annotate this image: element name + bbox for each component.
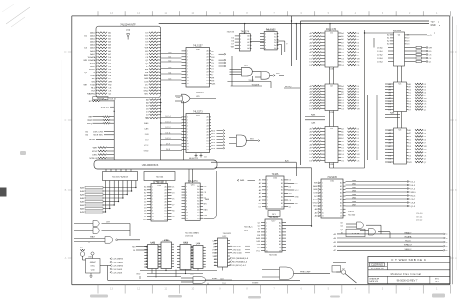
svg-text:9: 9 xyxy=(152,210,153,212)
svg-text:D6: D6 xyxy=(341,65,344,67)
svg-text:RAS: RAS xyxy=(313,185,318,188)
svg-text:8: 8 xyxy=(187,137,188,139)
svg-text:1: 1 xyxy=(266,222,267,224)
svg-text:WE: WE xyxy=(84,84,88,86)
svg-text:DM6: DM6 xyxy=(352,201,356,203)
svg-text:5: 5 xyxy=(322,196,323,198)
svg-text:A5: A5 xyxy=(144,186,146,189)
connector U35 right pin rows xyxy=(143,32,160,96)
svg-text:DO: DO xyxy=(213,247,216,249)
svg-text:11: 11 xyxy=(152,216,154,218)
svg-text:RD (RDATA) 4-6: RD (RDATA) 4-6 xyxy=(232,261,248,264)
svg-text:DATE 5/16: DATE 5/16 xyxy=(369,280,378,283)
labels left of U10 xyxy=(313,182,321,218)
svg-text:3: 3 xyxy=(186,192,187,194)
svg-text:D2: D2 xyxy=(144,201,147,203)
svg-text:5: 5 xyxy=(266,235,267,237)
label below U17 xyxy=(269,255,278,257)
wires RD group to edge xyxy=(333,231,447,252)
svg-text:7416: 7416 xyxy=(150,242,156,244)
AND gate U28 xyxy=(255,72,284,80)
svg-text:A1: A1 xyxy=(387,37,389,40)
svg-text:Q1: Q1 xyxy=(424,159,427,161)
svg-text:D2: D2 xyxy=(357,135,360,137)
svg-text:9: 9 xyxy=(266,247,267,249)
svg-text:A2D: A2D xyxy=(285,159,290,162)
svg-text:U29: U29 xyxy=(196,96,200,98)
svg-text:Q1: Q1 xyxy=(424,109,427,111)
svg-text:CS 4-0: CS 4-0 xyxy=(416,213,423,215)
svg-text:4: 4 xyxy=(240,45,241,47)
wire U25 to bus xyxy=(244,23,245,34)
svg-text:A7: A7 xyxy=(207,70,209,73)
svg-text:CK: CK xyxy=(145,57,149,59)
svg-text:DRAWN AP: DRAWN AP xyxy=(369,278,380,281)
svg-text:6: 6 xyxy=(186,201,187,203)
svg-text:A5B: A5B xyxy=(80,204,85,207)
wires RAS CAS right xyxy=(385,112,400,118)
labels around U33 xyxy=(143,186,175,221)
svg-text:READY: READY xyxy=(404,231,412,234)
svg-text:4: 4 xyxy=(152,196,153,198)
svg-text:2: 2 xyxy=(152,190,153,192)
svg-text:A6: A6 xyxy=(409,129,411,132)
svg-text:D1: D1 xyxy=(340,212,342,214)
svg-text:D4 10: D4 10 xyxy=(165,138,171,140)
svg-text:D7: D7 xyxy=(357,106,360,108)
svg-text:2: 2 xyxy=(265,36,266,38)
svg-text:RD: RD xyxy=(429,51,432,53)
title block text xyxy=(369,258,439,283)
svg-text:A1: A1 xyxy=(197,188,199,191)
svg-text:WD: WD xyxy=(276,73,280,75)
wires entering bottom ICs xyxy=(132,246,147,252)
svg-text:74LS374: 74LS374 xyxy=(188,180,198,183)
svg-text:9: 9 xyxy=(186,209,187,211)
AND gate bottom xyxy=(181,277,232,284)
svg-text:A6B: A6B xyxy=(80,207,85,210)
svg-text:D0 14: D0 14 xyxy=(165,116,171,118)
svg-text:3: 3 xyxy=(187,57,188,59)
svg-text:74LS153: 74LS153 xyxy=(154,181,164,184)
svg-text:D6: D6 xyxy=(357,103,360,105)
svg-text:D5: D5 xyxy=(409,104,412,106)
svg-text:5: 5 xyxy=(265,45,266,47)
svg-text:OSC: OSC xyxy=(88,256,93,258)
svg-text:Q2: Q2 xyxy=(424,162,427,164)
svg-text:A2: A2 xyxy=(207,122,209,125)
connector U35 outline xyxy=(96,23,161,97)
svg-text:SYSTEMS INC: SYSTEMS INC xyxy=(371,268,385,270)
svg-text:8: 8 xyxy=(187,71,188,73)
svg-text:D0: D0 xyxy=(206,140,208,142)
svg-text:GND: GND xyxy=(313,202,318,204)
svg-text:D7: D7 xyxy=(357,151,360,153)
svg-text:MK4116: MK4116 xyxy=(393,30,402,32)
svg-text:WR: WR xyxy=(357,58,361,60)
buffer gates lower left xyxy=(74,221,130,237)
label U42 xyxy=(162,240,170,242)
labels above U15 xyxy=(186,157,200,161)
arrow label RAS mid xyxy=(237,179,255,182)
svg-text:4: 4 xyxy=(265,42,266,44)
svg-text:A5: A5 xyxy=(340,198,342,201)
wire bus column vertical xyxy=(183,101,184,160)
svg-text:B: B xyxy=(65,188,67,192)
svg-text:D6: D6 xyxy=(424,92,427,94)
svg-text:D5: D5 xyxy=(144,210,147,212)
svg-text:WFAULT: WFAULT xyxy=(404,244,413,247)
svg-text:WR: WR xyxy=(357,154,361,156)
svg-text:A2: A2 xyxy=(197,191,199,194)
svg-text:2: 2 xyxy=(266,226,267,228)
svg-text:D0: D0 xyxy=(197,209,199,211)
labels left of U17 xyxy=(256,222,312,252)
svg-text:RAS: RAS xyxy=(240,179,245,182)
svg-text:A4: A4 xyxy=(165,198,167,201)
wires disk group xyxy=(85,131,114,136)
svg-text:DIN: DIN xyxy=(257,244,261,246)
svg-text:TR00: TR00 xyxy=(90,75,96,77)
svg-text:D6: D6 xyxy=(357,52,360,54)
svg-text:VCC: VCC xyxy=(144,87,149,89)
svg-text:WR: WR xyxy=(108,81,112,83)
svg-text:A4: A4 xyxy=(281,192,283,195)
IC U22 xyxy=(215,238,231,267)
svg-text:D0: D0 xyxy=(206,74,208,76)
svg-text:D3: D3 xyxy=(341,55,344,57)
svg-text:A6: A6 xyxy=(207,133,209,136)
svg-text:VCC: VCC xyxy=(212,250,217,252)
svg-text:A1: A1 xyxy=(340,185,342,188)
svg-text:3: 3 xyxy=(240,42,241,44)
svg-text:A2: A2 xyxy=(214,264,216,267)
IC U16 74166 xyxy=(262,173,288,209)
IC U44 xyxy=(191,243,206,269)
svg-text:7414: 7414 xyxy=(183,242,189,244)
svg-text:MO: MO xyxy=(132,246,136,248)
svg-text:D2: D2 xyxy=(409,95,412,97)
svg-text:DRQ: DRQ xyxy=(87,123,92,125)
svg-text:D7: D7 xyxy=(409,159,412,161)
svg-text:DM1: DM1 xyxy=(352,184,356,186)
svg-text:D: D xyxy=(65,50,67,54)
svg-text:A1: A1 xyxy=(247,38,249,41)
wires DM bus to edge xyxy=(346,180,417,216)
svg-text:5: 5 xyxy=(152,199,153,201)
svg-text:MR: MR xyxy=(257,232,261,234)
svg-text:12: 12 xyxy=(186,218,188,220)
svg-text:D6: D6 xyxy=(409,107,412,109)
svg-text:D5: D5 xyxy=(409,152,412,154)
svg-text:D1: D1 xyxy=(341,144,344,146)
svg-text:7: 7 xyxy=(152,204,153,206)
svg-text:9: 9 xyxy=(187,74,188,76)
junction dot left bus xyxy=(114,111,115,112)
svg-text:D7: D7 xyxy=(232,44,235,46)
svg-text:2: 2 xyxy=(267,183,268,185)
svg-text:D7: D7 xyxy=(409,109,412,111)
svg-text:DAL7: DAL7 xyxy=(90,53,96,56)
svg-text:GND: GND xyxy=(144,150,149,152)
wire bus +5V top xyxy=(301,21,441,23)
svg-text:D1: D1 xyxy=(164,213,166,215)
svg-text:D6: D6 xyxy=(289,186,292,188)
svg-text:A7: A7 xyxy=(409,86,411,89)
wires U30 outputs xyxy=(211,51,226,86)
svg-text:D2: D2 xyxy=(164,216,166,218)
svg-text:D3: D3 xyxy=(357,94,360,96)
svg-text:A7: A7 xyxy=(197,205,199,208)
svg-text:ENBL: ENBL xyxy=(212,278,218,280)
label below connector xyxy=(93,97,116,101)
labels U25 left xyxy=(231,37,235,48)
svg-text:D1: D1 xyxy=(279,250,281,252)
IC U25 74LS74 xyxy=(235,31,252,51)
svg-text:A0: A0 xyxy=(274,33,276,36)
svg-text:A3: A3 xyxy=(387,43,389,46)
svg-text:96-5000-00 REV 7: 96-5000-00 REV 7 xyxy=(397,279,418,282)
svg-text:A3: A3 xyxy=(281,189,283,192)
svg-text:DM2: DM2 xyxy=(352,187,356,189)
labels right edge lower xyxy=(416,213,423,222)
wires into U31 xyxy=(144,117,182,152)
svg-text:CLK 250K: CLK 250K xyxy=(112,272,122,274)
connector U35 left pin rows xyxy=(83,32,112,96)
svg-text:A0: A0 xyxy=(279,221,281,224)
svg-text:D2: D2 xyxy=(206,146,208,148)
svg-text:WRT: WRT xyxy=(93,147,99,149)
svg-text:11: 11 xyxy=(187,146,189,148)
svg-text:D2: D2 xyxy=(357,39,360,41)
svg-text:D1: D1 xyxy=(197,212,199,214)
IC U41 xyxy=(144,242,160,269)
svg-text:U13 U14: U13 U14 xyxy=(185,236,194,238)
svg-text:CS: CS xyxy=(108,87,112,89)
RAM bank U1 xyxy=(309,29,360,71)
svg-text:1: 1 xyxy=(187,51,188,53)
svg-text:4: 4 xyxy=(186,195,187,197)
svg-text:U35: U35 xyxy=(126,30,131,32)
svg-text:DO: DO xyxy=(295,183,298,185)
svg-text:RAS: RAS xyxy=(211,83,216,86)
svg-text:A2: A2 xyxy=(207,56,209,59)
svg-text:CK (RCLK) 4-2: CK (RCLK) 4-2 xyxy=(232,265,247,267)
svg-text:CLK 4MHZ: CLK 4MHZ xyxy=(112,259,123,261)
svg-text:7: 7 xyxy=(187,68,188,70)
svg-text:74LS245: 74LS245 xyxy=(327,176,337,179)
svg-text:STEP: STEP xyxy=(90,63,96,65)
svg-text:8: 8 xyxy=(267,203,268,205)
svg-text:2: 2 xyxy=(240,39,241,41)
svg-text:74LS157: 74LS157 xyxy=(193,45,203,48)
RAM bank U6 xyxy=(385,128,427,164)
IC U26 74LS123 xyxy=(260,29,278,51)
svg-text:RD: RD xyxy=(211,60,214,62)
svg-text:TG43: TG43 xyxy=(90,84,96,86)
svg-text:D1 A1: D1 A1 xyxy=(377,50,383,53)
svg-text:WR: WR xyxy=(424,146,428,148)
svg-text:74LS244 INTF: 74LS244 INTF xyxy=(120,23,136,26)
svg-text:MTRON: MTRON xyxy=(90,158,98,160)
svg-text:A7: A7 xyxy=(341,137,343,140)
svg-text:D2: D2 xyxy=(206,80,208,82)
wires into U4 xyxy=(364,32,402,82)
svg-text:U36 ADDR BUS: U36 ADDR BUS xyxy=(142,164,159,167)
svg-text:C3: C3 xyxy=(204,157,207,159)
svg-text:WD1691: WD1691 xyxy=(196,92,204,94)
svg-text:A3: A3 xyxy=(207,125,209,128)
svg-text:D2: D2 xyxy=(340,216,342,218)
clock labels xyxy=(100,258,124,281)
svg-text:12: 12 xyxy=(187,149,189,151)
svg-text:3: 3 xyxy=(267,186,268,188)
svg-text:x: x xyxy=(89,242,90,244)
IC U10 74LS245 xyxy=(321,176,346,218)
svg-text:A2: A2 xyxy=(247,41,249,44)
svg-text:+5V: +5V xyxy=(431,21,436,23)
svg-text:Q1: Q1 xyxy=(289,207,292,209)
svg-text:2: 2 xyxy=(186,189,187,191)
svg-text:74LS123: 74LS123 xyxy=(266,29,275,31)
svg-text:D3: D3 xyxy=(357,138,360,140)
svg-text:A5: A5 xyxy=(165,200,167,203)
svg-text:4: 4 xyxy=(187,126,188,128)
svg-text:CLK: CLK xyxy=(88,120,93,122)
svg-text:74LS04: 74LS04 xyxy=(156,177,164,179)
svg-text:D1: D1 xyxy=(206,143,208,145)
RAM bank U3 xyxy=(309,127,360,167)
svg-text:A4B: A4B xyxy=(80,200,85,203)
svg-text:Q1: Q1 xyxy=(342,268,345,270)
svg-text:D2 12: D2 12 xyxy=(165,127,170,129)
svg-text:D6 8: D6 8 xyxy=(166,149,170,151)
signal rows right of U22 xyxy=(230,246,250,255)
svg-text:A3: A3 xyxy=(197,194,199,197)
svg-text:CLK 500K: CLK 500K xyxy=(112,269,122,271)
svg-text:A0: A0 xyxy=(197,185,199,188)
wires W0 to H1 xyxy=(189,169,193,183)
svg-text:A6: A6 xyxy=(341,90,343,93)
svg-text:10: 10 xyxy=(187,143,189,145)
svg-text:74LS74: 74LS74 xyxy=(227,32,235,34)
svg-text:D3: D3 xyxy=(144,204,147,206)
svg-text:A7: A7 xyxy=(165,206,167,209)
wires into U30 xyxy=(161,52,182,81)
svg-text:DO: DO xyxy=(145,139,149,141)
svg-text:A6: A6 xyxy=(340,201,342,204)
RAM right bank verticals xyxy=(377,95,402,160)
svg-text:7: 7 xyxy=(266,241,267,243)
svg-text:DIN: DIN xyxy=(145,134,149,136)
resistor row RP2 xyxy=(89,99,114,103)
rounded bus box W0 xyxy=(94,160,217,169)
svg-text:+RD 500: +RD 500 xyxy=(232,249,241,251)
svg-text:1: 1 xyxy=(152,187,153,189)
svg-text:VCC: VCC xyxy=(295,190,300,192)
svg-text:D5: D5 xyxy=(357,144,360,146)
svg-text:o: o xyxy=(446,242,447,244)
svg-text:DAL6: DAL6 xyxy=(90,50,96,53)
title block grid xyxy=(368,257,450,284)
svg-text:DO: DO xyxy=(257,247,260,249)
svg-text:RAS: RAS xyxy=(144,122,149,125)
svg-text:MO: MO xyxy=(92,78,96,80)
svg-text:9: 9 xyxy=(187,140,188,142)
wires RAS CAS left xyxy=(305,114,325,125)
svg-text:OF 2: OF 2 xyxy=(435,281,439,283)
svg-text:D3: D3 xyxy=(197,218,199,220)
svg-text:5: 5 xyxy=(240,48,241,50)
svg-text:74LS157 A-MUX: 74LS157 A-MUX xyxy=(112,176,129,179)
svg-text:A7: A7 xyxy=(207,136,209,139)
svg-text:A3: A3 xyxy=(279,231,281,234)
svg-text:CAS: CAS xyxy=(256,240,261,243)
svg-text:A6: A6 xyxy=(281,199,283,202)
svg-text:A2: A2 xyxy=(281,185,283,188)
svg-text:D5: D5 xyxy=(424,90,427,92)
paper noise specks xyxy=(84,20,448,277)
svg-text:74LS161: 74LS161 xyxy=(269,255,278,257)
IC U15 74LS374 xyxy=(182,180,204,220)
svg-text:1: 1 xyxy=(240,36,241,38)
svg-text:7416 A-C: 7416 A-C xyxy=(244,226,253,229)
svg-text:D7: D7 xyxy=(424,95,427,97)
svg-text:A7B: A7B xyxy=(80,211,85,214)
svg-text:A1: A1 xyxy=(281,182,283,185)
svg-text:A6: A6 xyxy=(279,240,281,243)
svg-text:8: 8 xyxy=(152,207,153,209)
svg-text:74LS00: 74LS00 xyxy=(348,215,356,217)
gate C4 WG xyxy=(229,135,260,146)
gate G2b xyxy=(360,229,390,238)
svg-text:A6: A6 xyxy=(197,203,199,206)
IC U17 74LS161 xyxy=(261,216,286,252)
svg-text:PRECOMP: PRECOMP xyxy=(300,271,311,273)
svg-text:U10 B: U10 B xyxy=(348,211,354,213)
svg-text:CK: CK xyxy=(108,90,112,92)
svg-text:CLK 1MHZ: CLK 1MHZ xyxy=(112,266,123,268)
svg-text:HLD: HLD xyxy=(91,87,96,89)
svg-text:A2: A2 xyxy=(340,188,342,191)
svg-text:A5 A7 D2: A5 A7 D2 xyxy=(189,157,199,160)
svg-text:A6: A6 xyxy=(409,83,411,86)
svg-text:o: o xyxy=(446,238,447,240)
scan smudges bottom margin xyxy=(20,151,445,299)
svg-text:U21 B: U21 B xyxy=(110,98,117,100)
svg-text:1/2W 5%: 1/2W 5% xyxy=(101,107,110,109)
svg-text:12: 12 xyxy=(152,219,154,221)
labels left of gates xyxy=(340,222,344,234)
svg-text:A1: A1 xyxy=(207,53,209,56)
svg-text:D3 11: D3 11 xyxy=(165,132,170,134)
svg-text:D7: D7 xyxy=(172,204,175,206)
svg-text:A0: A0 xyxy=(165,186,167,189)
svg-text:RD: RD xyxy=(145,51,149,53)
svg-text:2: 2 xyxy=(322,186,323,188)
svg-text:A5: A5 xyxy=(341,88,343,91)
svg-text:1: 1 xyxy=(187,117,188,119)
svg-text:DM3: DM3 xyxy=(352,191,356,193)
svg-text:D1: D1 xyxy=(206,77,208,79)
svg-text:D1: D1 xyxy=(357,36,360,38)
svg-text:D5: D5 xyxy=(357,100,360,102)
svg-text:DAL4: DAL4 xyxy=(90,44,96,47)
svg-text:D5: D5 xyxy=(424,136,427,138)
wires W0 to A-mux xyxy=(106,169,131,172)
svg-text:INTRQ: INTRQ xyxy=(285,86,292,88)
svg-text:A6: A6 xyxy=(165,203,167,206)
